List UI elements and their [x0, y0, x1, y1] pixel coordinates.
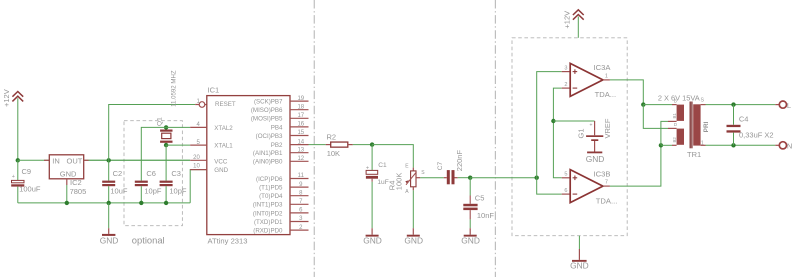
amplifier dashed box — [512, 38, 627, 236]
svg-text:220nF: 220nF — [455, 150, 464, 172]
svg-text:2 X 6V 15VA: 2 X 6V 15VA — [658, 93, 700, 102]
svg-text:(MISO)PB6: (MISO)PB6 — [251, 107, 283, 114]
node XTAL2 net junction — [164, 125, 168, 129]
terminal L — [779, 101, 786, 108]
svg-text:C2: C2 — [113, 169, 123, 178]
capacitor C2 — [102, 160, 128, 203]
svg-text:PRI: PRI — [703, 121, 710, 132]
svg-text:10: 10 — [193, 164, 200, 170]
svg-text:7805: 7805 — [70, 187, 87, 196]
svg-text:B1: B1 — [672, 113, 677, 119]
svg-text:GND: GND — [404, 236, 423, 246]
svg-text:12: 12 — [297, 156, 304, 162]
svg-text:OUT: OUT — [67, 156, 83, 165]
wire R4 bottom to ground — [412, 190, 414, 228]
wire secondary top — [701, 104, 706, 106]
svg-text:C9: C9 — [22, 167, 32, 176]
wire OUT to VCC rail — [89, 159, 191, 161]
wire RESET net — [109, 105, 196, 161]
svg-text:D: D — [674, 122, 677, 127]
svg-text:(AIN1)PB1: (AIN1)PB1 — [253, 150, 283, 157]
wire IC1 GND pin to rail — [190, 170, 207, 203]
svg-text:3: 3 — [564, 65, 567, 71]
svg-text:5: 5 — [564, 172, 567, 178]
svg-text:IC3A: IC3A — [594, 63, 612, 72]
svg-text:10K: 10K — [327, 149, 340, 158]
wire node into amplifier box — [470, 177, 537, 179]
optional dashed box — [124, 121, 182, 226]
svg-text:(INT1)PD3: (INT1)PD3 — [253, 202, 283, 209]
svg-text:11: 11 — [298, 173, 305, 179]
reset inversion bubble — [199, 102, 205, 108]
voltage regulator IC2 7805 — [44, 155, 89, 203]
svg-text:18: 18 — [297, 104, 304, 110]
svg-text:2: 2 — [564, 82, 567, 88]
ground under R4 — [404, 228, 423, 246]
svg-text:17: 17 — [297, 113, 304, 119]
transformer TR1 — [658, 93, 710, 159]
svg-text:+: + — [590, 123, 593, 129]
svg-text:GND: GND — [461, 236, 480, 246]
svg-text:13: 13 — [297, 147, 304, 153]
svg-text:R2: R2 — [327, 133, 337, 142]
svg-text:G1: G1 — [577, 128, 586, 138]
svg-text:(OCI)PB3: (OCI)PB3 — [256, 133, 283, 140]
crystal Q1 — [157, 70, 178, 145]
svg-text:10pF: 10pF — [169, 186, 187, 195]
svg-text:(AIN0)PB0: (AIN0)PB0 — [253, 159, 283, 166]
svg-text:(TXD)PD1: (TXD)PD1 — [254, 219, 283, 226]
svg-text:16: 16 — [297, 122, 304, 128]
left pin names — [214, 101, 236, 174]
svg-text:6: 6 — [564, 188, 567, 194]
wire XTAL1 net — [166, 144, 190, 146]
svg-text:(MOSI)PB5: (MOSI)PB5 — [251, 116, 283, 123]
node XTAL1 net junction — [164, 143, 168, 147]
wire +12V to box — [577, 17, 579, 38]
svg-text:C5: C5 — [475, 193, 485, 202]
node junction at 12V rail — [16, 158, 20, 162]
svg-text:L: L — [787, 101, 791, 110]
svg-text:IC1: IC1 — [208, 86, 220, 95]
svg-text:0,33uF X2: 0,33uF X2 — [739, 131, 774, 140]
wire XTAL2 net — [141, 127, 190, 180]
capacitor C3 — [160, 169, 187, 203]
svg-text:19: 19 — [297, 96, 304, 102]
fold line (dash-dot page divider) — [313, 0, 315, 277]
capacitor C4 — [727, 105, 774, 146]
svg-text:C4: C4 — [739, 114, 749, 123]
svg-text:20: 20 — [193, 155, 200, 161]
svg-text:C6: C6 — [146, 169, 156, 178]
svg-text:IN: IN — [52, 156, 60, 165]
fold line 2 (dash-dot page divider) — [494, 0, 496, 277]
svg-text:C7: C7 — [437, 161, 444, 170]
wire node to IC2 IN — [18, 159, 190, 161]
capacitor C1 — [366, 145, 389, 229]
terminal N — [779, 142, 786, 149]
ground under C5 — [461, 228, 480, 246]
wire IC3A output to transformer — [610, 80, 643, 105]
svg-text:TDA...: TDA... — [596, 196, 618, 205]
capacitor C6 — [135, 169, 162, 203]
svg-text:XTAL1: XTAL1 — [214, 143, 233, 150]
svg-text:GND: GND — [570, 261, 589, 271]
node VCC junction — [107, 158, 111, 162]
svg-text:IC3B: IC3B — [594, 169, 611, 178]
svg-text:optional: optional — [132, 234, 165, 245]
op-amp IC3B — [562, 169, 618, 205]
wire node to R4 top — [372, 145, 413, 168]
wire R2 to node — [353, 144, 372, 146]
wire C7 to node — [458, 177, 471, 179]
node R2/C1/R4 junction — [370, 142, 374, 146]
potentiometer R4 — [388, 164, 426, 195]
right pin names — [251, 99, 283, 235]
resistor R2 — [326, 133, 353, 158]
svg-text:14: 14 — [297, 139, 304, 145]
svg-text:XTAL2: XTAL2 — [214, 125, 233, 132]
svg-text:+: + — [12, 174, 15, 180]
svg-text:10uF: 10uF — [110, 186, 128, 195]
svg-text:(T1)PD5: (T1)PD5 — [259, 185, 283, 192]
supply symbol +12V right — [573, 10, 584, 20]
svg-text:15: 15 — [297, 130, 304, 136]
svg-text:S: S — [701, 98, 705, 104]
svg-text:100uF: 100uF — [19, 184, 41, 193]
node C4 bottom — [731, 143, 735, 147]
svg-text:ATtiny 2313: ATtiny 2313 — [208, 237, 248, 246]
wire IC3B output to transformer — [610, 145, 661, 186]
left pin stubs — [190, 127, 207, 169]
svg-text:VCC: VCC — [214, 159, 228, 166]
ground under amplifier box — [570, 236, 589, 271]
svg-text:PB2: PB2 — [271, 142, 283, 149]
wire R4 wiper to C7 — [420, 177, 443, 179]
svg-text:PB4: PB4 — [271, 124, 283, 131]
right pin numbers — [297, 96, 304, 231]
svg-text:(T0)PD4: (T0)PD4 — [259, 193, 283, 200]
ground symbol under C2 — [100, 203, 119, 246]
node C4 top — [731, 102, 735, 106]
right pin stubs — [290, 101, 309, 230]
wire VREF net — [553, 88, 561, 178]
svg-text:100K: 100K — [395, 173, 404, 191]
ground rail wire — [18, 202, 190, 204]
svg-text:7: 7 — [605, 180, 608, 186]
op-amp IC3A — [562, 63, 616, 99]
wire +12V down to node — [17, 98, 19, 160]
supply symbol +12V left — [12, 92, 23, 102]
svg-text:GND: GND — [363, 236, 382, 246]
svg-text:RESET: RESET — [215, 101, 236, 108]
svg-text:1: 1 — [605, 73, 608, 79]
ground under C1 — [363, 228, 382, 246]
left pin numbers — [193, 99, 200, 169]
svg-text:10nF: 10nF — [477, 211, 495, 220]
wire signal node / opamp inputs — [535, 176, 539, 180]
svg-text:GND: GND — [586, 154, 605, 164]
svg-text:GND: GND — [214, 167, 228, 174]
ground under G1 — [586, 152, 605, 165]
svg-text:10pF: 10pF — [144, 186, 162, 195]
microcontroller IC1 ATtiny 2313 — [190, 86, 308, 246]
svg-text:(INT0)PD2: (INT0)PD2 — [253, 210, 283, 217]
capacitor C7 — [437, 150, 464, 185]
svg-text:B2: B2 — [672, 137, 677, 143]
node C7/C5 junction — [468, 176, 472, 180]
wire secondary bottom — [701, 144, 706, 146]
svg-text:11.0592 MHZ: 11.0592 MHZ — [170, 70, 177, 107]
battery G1 VREF — [577, 118, 613, 151]
svg-text:(ICP)PD6: (ICP)PD6 — [256, 176, 283, 183]
svg-text:TR1: TR1 — [687, 150, 701, 159]
svg-text:Q1: Q1 — [157, 117, 164, 126]
svg-text:(RXD)PD0: (RXD)PD0 — [253, 228, 283, 235]
wire PB2 to R2 — [309, 144, 326, 146]
svg-text:VREF: VREF — [603, 118, 612, 138]
svg-text:C3: C3 — [171, 169, 181, 178]
svg-text:TDA...: TDA... — [595, 90, 617, 99]
svg-text:(SCK)PB7: (SCK)PB7 — [254, 99, 283, 106]
svg-text:+12V: +12V — [562, 11, 571, 29]
svg-text:GND: GND — [100, 236, 119, 246]
capacitor C5 — [463, 178, 494, 229]
capacitor C9 — [11, 160, 41, 203]
svg-text:C1: C1 — [378, 162, 387, 169]
svg-text:N: N — [787, 142, 792, 151]
junction GND pin of IC2 — [65, 201, 69, 205]
svg-text:+12V: +12V — [2, 89, 11, 107]
svg-text:IC2: IC2 — [70, 178, 82, 187]
